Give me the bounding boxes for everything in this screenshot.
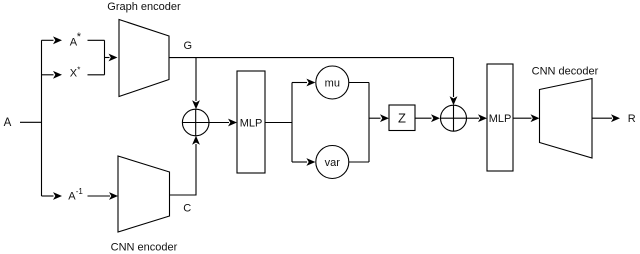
- wire G down to sum1 with arrow: [195, 58, 197, 101]
- wire bracket vertical: [104, 40, 106, 75]
- wire fork to var with arrow: [292, 161, 307, 163]
- svg-text:Z: Z: [398, 111, 406, 126]
- wire bracket to graph encoder with arrow: [105, 57, 110, 59]
- svg-text:*: *: [77, 31, 82, 43]
- node X*: [70, 66, 81, 80]
- svg-text:CNN decoder: CNN decoder: [532, 66, 599, 78]
- wire sum1 to MLP1 with arrow: [209, 122, 229, 124]
- wire Z to sum2 with arrow: [415, 117, 432, 119]
- wire decoder to R with arrow: [592, 117, 612, 119]
- wire G output horizontal: [169, 57, 454, 59]
- node R: [628, 113, 636, 125]
- block Z: [389, 105, 415, 131]
- wire fork to mu with arrow: [292, 82, 307, 84]
- MLP block 2: [487, 64, 513, 171]
- CNN decoder U3: [540, 79, 593, 159]
- node A: [4, 117, 12, 129]
- wire A-1 to CNN encoder with arrow: [88, 195, 111, 197]
- svg-text:A: A: [4, 117, 12, 129]
- node A*: [70, 31, 82, 49]
- wire join vertical: [368, 83, 370, 163]
- svg-text:CNN encoder: CNN encoder: [111, 242, 178, 254]
- svg-text:MLP: MLP: [489, 113, 512, 125]
- wire from X* to bracket: [88, 74, 105, 76]
- adder sum1: [182, 109, 209, 136]
- wire mu to join: [349, 82, 369, 84]
- wire to A* with arrow: [42, 39, 54, 41]
- svg-text:var: var: [325, 157, 341, 169]
- svg-text:MLP: MLP: [240, 117, 263, 129]
- wire A-1 branch: [42, 195, 54, 197]
- wire branch vertical: [41, 40, 43, 196]
- CNN encoder U2: [118, 156, 170, 232]
- wire from A* to bracket: [88, 39, 105, 41]
- node var: [316, 146, 349, 179]
- svg-text:mu: mu: [325, 78, 340, 90]
- wire MLP2 to CNN decoder with arrow: [513, 117, 532, 119]
- wire sum2 to MLP2 with arrow: [467, 117, 480, 119]
- wire A to branch: [20, 121, 42, 123]
- wire MLP1 to fork: [265, 122, 292, 124]
- svg-text:G: G: [184, 40, 193, 52]
- node mu: [316, 66, 349, 99]
- adder sum2: [441, 105, 467, 131]
- svg-text:-1: -1: [76, 187, 84, 196]
- svg-text:C: C: [183, 202, 191, 214]
- wire G down to sum2 with arrow: [453, 58, 455, 97]
- graph encoder U1: [119, 20, 169, 97]
- MLP block 1: [237, 71, 265, 173]
- node A-1: [68, 187, 83, 203]
- wire var to join: [349, 161, 369, 163]
- wire to X* with arrow: [42, 74, 54, 76]
- node C: [183, 202, 191, 214]
- wire C to sum1 with arrow: [170, 144, 197, 195]
- svg-text:*: *: [77, 66, 80, 75]
- svg-text:R: R: [628, 113, 636, 125]
- wire join to Z with arrow: [369, 117, 381, 119]
- svg-text:Graph encoder: Graph encoder: [107, 1, 181, 13]
- node G: [184, 40, 193, 52]
- wire fork vertical: [291, 83, 293, 163]
